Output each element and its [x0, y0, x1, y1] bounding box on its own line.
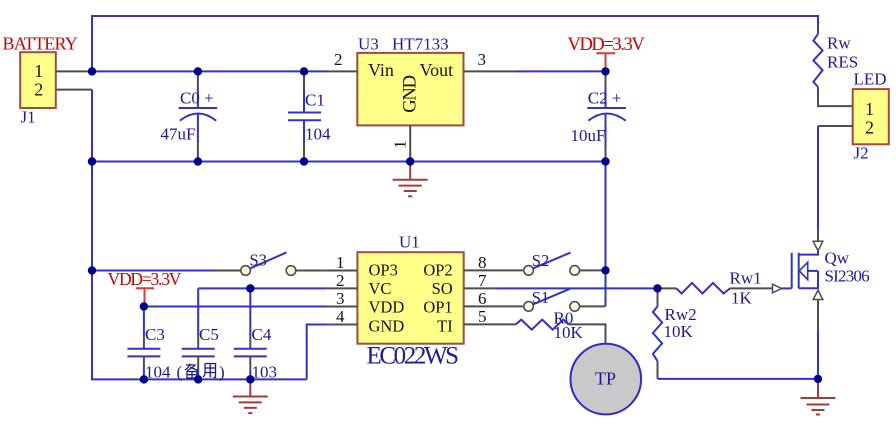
- resistor R0: [516, 309, 584, 343]
- capacitor C3: [127, 307, 171, 382]
- capacitor C5: [182, 288, 219, 379]
- svg-text:104: 104: [145, 363, 171, 382]
- svg-text:Qw: Qw: [825, 249, 850, 268]
- svg-text:6: 6: [478, 289, 487, 308]
- svg-text:Rw2: Rw2: [665, 305, 697, 324]
- pin J1.1: [56, 70, 92, 72]
- svg-text:VDD: VDD: [369, 298, 405, 317]
- resistor Rw: [813, 34, 858, 88]
- node Rw1 Rw2: [653, 284, 661, 292]
- arrow source: [813, 290, 823, 299]
- svg-text:C0 +: C0 +: [180, 88, 214, 107]
- wire SO net (pin7): [497, 287, 658, 289]
- svg-text:LED: LED: [854, 70, 887, 89]
- wire VDD node down to S2 junction: [605, 162, 607, 307]
- node C1 bottom: [300, 157, 308, 165]
- pin U1.5: [464, 323, 516, 325]
- svg-text:Rw1: Rw1: [730, 269, 762, 288]
- wire VDD row: [144, 306, 328, 308]
- svg-text:2: 2: [336, 271, 345, 290]
- svg-text:TP: TP: [595, 369, 616, 389]
- node S2 junction: [601, 266, 609, 274]
- svg-text:S1: S1: [532, 288, 549, 307]
- capacitor C4: [234, 288, 277, 381]
- node C0 bottom: [194, 157, 202, 165]
- wire source down: [817, 300, 819, 331]
- svg-text:8: 8: [478, 253, 487, 272]
- svg-text:Vout: Vout: [420, 60, 454, 80]
- wire VC row: [198, 287, 327, 289]
- drain lead: [799, 251, 818, 255]
- wire R0 to TP: [569, 324, 606, 343]
- node arrow into gate: [773, 284, 782, 293]
- svg-text:): ): [219, 363, 225, 382]
- wire source to ground junction: [817, 330, 819, 379]
- svg-text:1: 1: [865, 99, 874, 119]
- node C2 bottom: [601, 157, 609, 165]
- op-amp U3 HT7133 regulator: [357, 53, 463, 126]
- label (备用) spare: [177, 363, 225, 382]
- node VDD left: [140, 302, 148, 310]
- wire drain vertical: [817, 126, 819, 230]
- node C1 top: [300, 67, 308, 75]
- pin U1.3: [327, 306, 357, 308]
- pin U1.7: [464, 287, 497, 289]
- switch S3: [241, 251, 296, 276]
- svg-text:BATTERY: BATTERY: [3, 33, 78, 53]
- svg-text:103: 103: [252, 363, 278, 382]
- pin U1.1: [327, 270, 357, 272]
- svg-text:3: 3: [336, 289, 345, 308]
- pin U3.2: [327, 70, 357, 72]
- wire left vertical (battery negative): [92, 90, 307, 380]
- svg-text:U1: U1: [399, 233, 420, 252]
- wire Vin rail: [92, 70, 327, 72]
- connector J2: [853, 89, 889, 144]
- svg-text:7: 7: [478, 271, 487, 290]
- transistor Qw SI2306: [792, 249, 869, 289]
- svg-text:2: 2: [865, 118, 874, 138]
- gate bar: [791, 253, 793, 288]
- wire ground rail: [92, 161, 606, 163]
- channel bar: [798, 253, 800, 288]
- svg-text:2: 2: [34, 80, 43, 100]
- node gnd rail left: [88, 157, 96, 165]
- resistor Rw2: [653, 288, 697, 379]
- svg-text:2: 2: [334, 50, 343, 69]
- svg-text:EC022WS: EC022WS: [367, 343, 459, 370]
- svg-text:VC: VC: [369, 279, 392, 298]
- svg-text:U3: U3: [358, 35, 379, 54]
- arrow drain: [813, 241, 823, 250]
- wire Rw2 to source junction: [658, 378, 819, 380]
- wire top rail: [92, 16, 818, 71]
- wire S3 row from battery vertical: [92, 270, 215, 272]
- svg-text:3: 3: [478, 50, 487, 69]
- node C4 top: [246, 284, 254, 292]
- svg-text:SO: SO: [432, 279, 453, 298]
- pin Qw drain stub: [817, 230, 819, 241]
- pin U1.4: [327, 324, 357, 326]
- ground (Qw source): [801, 379, 836, 415]
- node C3 bottom: [140, 375, 148, 383]
- capacitor C1: [288, 71, 331, 161]
- svg-text:GND: GND: [401, 75, 421, 112]
- svg-text:J2: J2: [854, 144, 869, 163]
- pin U3.3: [464, 70, 517, 72]
- node VDD top: [601, 67, 609, 75]
- svg-text:(: (: [177, 363, 183, 382]
- svg-text:VDD=3.3V: VDD=3.3V: [568, 35, 646, 55]
- svg-text:1: 1: [336, 253, 345, 272]
- node J1.1 junction: [88, 67, 96, 75]
- svg-text:HT7133: HT7133: [392, 35, 449, 54]
- op-amp U1 EC022WS: [357, 252, 463, 344]
- wire S2 to VDD vertical: [580, 269, 605, 271]
- svg-text:1: 1: [34, 61, 43, 81]
- svg-text:C5: C5: [199, 325, 219, 344]
- pin U1.2: [327, 287, 357, 289]
- svg-text:OP1: OP1: [423, 298, 452, 317]
- pin U1.8: [464, 269, 523, 271]
- body line: [808, 270, 818, 272]
- svg-text:1: 1: [391, 140, 410, 149]
- wire S1 to VDD vertical: [580, 305, 605, 307]
- wire S3 to U1 pin1: [296, 270, 327, 272]
- connector J1: [20, 52, 56, 108]
- wire Rw to J2 pin1: [818, 87, 853, 106]
- test point TP: [571, 344, 642, 415]
- wire GND row to bottom rail: [307, 325, 328, 380]
- resistor Rw1: [658, 269, 773, 308]
- svg-text:OP2: OP2: [423, 261, 452, 280]
- wire gate lead: [782, 287, 792, 289]
- switch S2: [524, 251, 580, 275]
- svg-text:Vin: Vin: [368, 60, 394, 80]
- svg-text:S3: S3: [250, 251, 267, 270]
- power VDD=3.3V (top): [568, 35, 646, 71]
- svg-text:47uF: 47uF: [161, 125, 196, 144]
- node C5 bottom: [194, 375, 202, 383]
- svg-text:C3: C3: [145, 325, 165, 344]
- svg-text:OP3: OP3: [369, 261, 398, 280]
- svg-text:J1: J1: [21, 108, 36, 127]
- svg-text:SI2306: SI2306: [825, 267, 870, 286]
- body diode arrow: [799, 262, 807, 279]
- pin Rw top stub: [817, 25, 819, 34]
- svg-text:1K: 1K: [731, 289, 753, 308]
- svg-text:10K: 10K: [664, 322, 694, 341]
- svg-text:4: 4: [336, 307, 345, 326]
- svg-text:5: 5: [478, 307, 487, 326]
- pin S3 left stub: [215, 270, 240, 272]
- capacitor C2: [571, 71, 627, 161]
- svg-text:C2 +: C2 +: [588, 88, 622, 107]
- switch S1: [524, 288, 580, 311]
- source lead: [799, 271, 818, 288]
- wire Vout to VDD node: [516, 70, 606, 72]
- svg-text:C4: C4: [252, 325, 272, 344]
- node C4 bottom: [246, 375, 254, 383]
- svg-text:10K: 10K: [554, 323, 584, 342]
- ground (U3): [393, 162, 428, 197]
- capacitor C0: [161, 71, 218, 161]
- pin U3.1: [409, 125, 411, 161]
- pin J1.2: [56, 89, 92, 91]
- svg-text:104: 104: [305, 125, 331, 144]
- node U3 gnd: [406, 157, 414, 165]
- svg-text:10uF: 10uF: [571, 126, 606, 145]
- svg-text:S2: S2: [532, 251, 549, 270]
- svg-text:Rw: Rw: [827, 34, 851, 53]
- svg-text:GND: GND: [369, 317, 405, 336]
- node S3 branch: [88, 266, 96, 274]
- svg-text:C1: C1: [305, 91, 325, 110]
- pin U1.6: [464, 305, 523, 307]
- svg-text:TI: TI: [437, 317, 453, 336]
- svg-text:VDD=3.3V: VDD=3.3V: [108, 269, 182, 289]
- node source gnd: [814, 375, 822, 383]
- power VDD=3.3V (left): [108, 269, 182, 307]
- node C0 top: [194, 67, 202, 75]
- ground (C4): [233, 379, 268, 413]
- pin J2.2 wire to drain: [818, 125, 853, 127]
